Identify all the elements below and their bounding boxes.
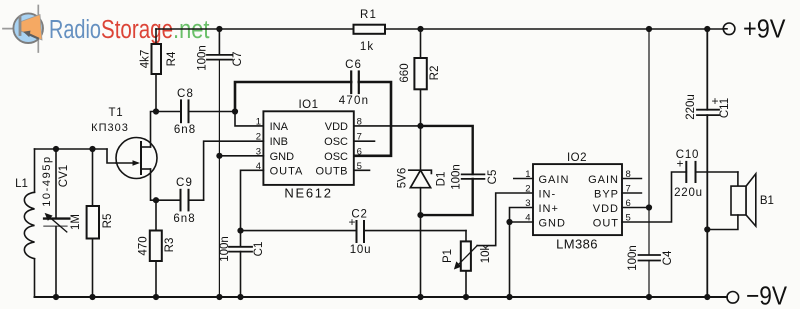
wire: IO1 pin8 VDD to supply node xyxy=(354,125,421,127)
svg-text:R3: R3 xyxy=(164,238,176,253)
wire: IO1 pin4 OUTA down xyxy=(241,170,264,230)
svg-text:C5: C5 xyxy=(487,170,499,185)
node: D1 column bottom xyxy=(417,294,423,300)
capacitor C8 6n8 xyxy=(156,88,235,136)
wire: jog from junction to T1 drain xyxy=(151,112,157,148)
variable capacitor CV1 10-495p xyxy=(41,149,70,297)
resistor R5 1M xyxy=(70,149,114,297)
resistor R1 xyxy=(354,25,386,34)
wire: IO2 pin6 VDD xyxy=(622,207,649,209)
svg-text:6: 6 xyxy=(357,146,362,157)
svg-text:IN+: IN+ xyxy=(539,203,559,215)
svg-text:C11: C11 xyxy=(719,98,731,118)
wire: IO1 pin3 GND xyxy=(219,155,263,157)
svg-text:.net: .net xyxy=(173,16,210,44)
capacitor C9 6n8 xyxy=(156,177,204,225)
svg-text:+9V: +9V xyxy=(743,14,786,44)
svg-text:OUT: OUT xyxy=(593,218,619,230)
svg-text:IO2: IO2 xyxy=(567,152,587,164)
wire: gnd column down xyxy=(509,222,511,297)
wire: IO1 pin2 INB from C9 xyxy=(204,141,264,200)
node: VDD column top xyxy=(646,26,652,32)
svg-text:5V6: 5V6 xyxy=(397,168,409,188)
node: C11 top rail xyxy=(704,26,710,32)
svg-text:470: 470 xyxy=(138,236,150,255)
capacitor C1 100n xyxy=(219,231,265,297)
capacitor C4 100n xyxy=(627,245,674,297)
-9V terminal xyxy=(727,292,739,304)
wire: IO2 pin8 stub xyxy=(622,178,641,180)
svg-text:R2: R2 xyxy=(429,66,441,81)
svg-text:1M: 1M xyxy=(70,214,82,230)
svg-text:NE612: NE612 xyxy=(284,186,332,201)
node: gnd column bottom xyxy=(216,294,222,300)
inductor L1 xyxy=(15,149,34,297)
resistor R2 660 xyxy=(399,29,441,126)
node: VDD column pin6 xyxy=(646,204,652,210)
svg-text:C7: C7 xyxy=(232,52,244,67)
svg-text:220u: 220u xyxy=(674,187,703,199)
svg-text:6n8: 6n8 xyxy=(174,124,196,136)
svg-text:R1: R1 xyxy=(360,9,377,21)
svg-text:100n: 100n xyxy=(627,245,639,271)
node: CV1 bottom xyxy=(53,294,59,300)
svg-text:C2: C2 xyxy=(351,209,367,221)
node: GND pin3 junction xyxy=(216,153,222,159)
node: R4/C8/T1 drain junction xyxy=(153,108,159,114)
node: CV1 top xyxy=(53,146,59,152)
svg-text:VDD: VDD xyxy=(593,203,619,215)
IC IO1 NE612 xyxy=(256,99,362,201)
resistor R3 470 xyxy=(138,200,177,297)
svg-text:D1: D1 xyxy=(436,172,448,187)
svg-text:INB: INB xyxy=(270,136,288,148)
VDD supply column xyxy=(648,29,650,255)
wire xyxy=(385,28,723,30)
svg-text:КП303: КП303 xyxy=(91,122,129,134)
svg-text:IN-: IN- xyxy=(539,189,557,201)
capacitor C10 220u electrolytic xyxy=(674,149,738,199)
capacitor C11 220u electrolytic xyxy=(685,29,731,297)
wire: gate to tank xyxy=(107,149,116,163)
node: R2 top rail xyxy=(417,26,423,32)
IC IO2 LM386 xyxy=(525,152,631,252)
svg-text:L1: L1 xyxy=(15,178,28,190)
svg-text:OUTB: OUTB xyxy=(315,166,348,178)
svg-text:R5: R5 xyxy=(102,214,114,229)
svg-text:GND: GND xyxy=(270,151,295,163)
svg-text:Radio: Radio xyxy=(49,16,101,44)
wire: D1 column to ground xyxy=(420,215,422,297)
node: speaker return junction xyxy=(704,226,710,232)
node: P1 bottom xyxy=(463,294,469,300)
capacitor C5 100n loop xyxy=(421,126,485,215)
svg-text:IO1: IO1 xyxy=(298,99,318,111)
svg-text:R4: R4 xyxy=(166,51,178,66)
svg-text:LM386: LM386 xyxy=(556,237,598,252)
svg-text:100n: 100n xyxy=(197,45,209,71)
svg-text:Storage: Storage xyxy=(101,16,173,44)
svg-text:10k: 10k xyxy=(480,244,492,263)
svg-text:C1: C1 xyxy=(253,242,265,257)
svg-text:VDD: VDD xyxy=(325,121,348,133)
RadioStorage.net logo xyxy=(3,6,210,53)
svg-text:C10: C10 xyxy=(676,149,700,161)
wire: IO2 pin3 IN+ to gnd xyxy=(510,208,534,223)
svg-text:GAIN: GAIN xyxy=(539,174,570,186)
svg-text:C8: C8 xyxy=(177,88,194,100)
node: C7 top rail xyxy=(216,26,222,32)
svg-text:−9V: −9V xyxy=(746,281,788,309)
node: R5 bottom xyxy=(89,294,95,300)
node: C4 bottom xyxy=(646,294,652,300)
svg-text:10u: 10u xyxy=(350,244,372,256)
svg-text:INA: INA xyxy=(270,121,289,133)
node: C11 bottom xyxy=(704,294,710,300)
transistor T1 KP303 JFET xyxy=(116,138,157,179)
svg-text:GAIN: GAIN xyxy=(588,174,619,186)
svg-text:+: + xyxy=(712,94,719,108)
svg-text:OSC: OSC xyxy=(324,151,348,163)
svg-text:1: 1 xyxy=(256,116,261,127)
wire: IO2 pin4 GND xyxy=(510,221,534,223)
svg-text:B1: B1 xyxy=(760,195,774,207)
node: IO2 gnd bottom xyxy=(506,294,512,300)
node: R3 bottom xyxy=(153,294,159,300)
wire: IO2 pin5 OUT to C10 xyxy=(622,172,686,222)
svg-text:470n: 470n xyxy=(339,95,369,107)
svg-text:6n8: 6n8 xyxy=(173,213,195,225)
svg-text:GND: GND xyxy=(539,218,566,230)
node: C8 / C6 / pin1 junction xyxy=(232,108,238,114)
capacitor C6 470n loop (bold) xyxy=(235,72,391,156)
svg-text:P1: P1 xyxy=(442,249,454,263)
svg-text:C9: C9 xyxy=(176,177,193,189)
svg-text:OSC: OSC xyxy=(324,136,348,148)
svg-text:OUTA: OUTA xyxy=(270,166,304,178)
wire: IO2 pin1 stub xyxy=(514,178,533,180)
+9V top rail wire xyxy=(156,28,354,30)
svg-text:220u: 220u xyxy=(685,94,697,120)
capacitor C7 100n / gnd column xyxy=(197,29,245,297)
svg-text:CV1: CV1 xyxy=(58,165,70,187)
svg-text:100n: 100n xyxy=(219,236,231,262)
svg-text:C6: C6 xyxy=(345,59,362,71)
zener diode D1 5V6 xyxy=(397,126,448,215)
wire: IO1 pin7 stub xyxy=(354,140,375,142)
potentiometer P1 10k xyxy=(442,193,533,297)
svg-text:100n: 100n xyxy=(451,164,463,190)
ground bottom rail xyxy=(35,296,728,298)
svg-text:BYP: BYP xyxy=(594,189,619,201)
svg-text:C4: C4 xyxy=(662,250,674,265)
resistor R4 xyxy=(155,29,157,44)
wire: junction to IO1 pin1 xyxy=(235,112,263,126)
svg-text:2: 2 xyxy=(525,184,530,195)
svg-text:10-495p: 10-495p xyxy=(41,155,53,207)
svg-text:T1: T1 xyxy=(108,107,123,119)
node: source/C9/R3 junction xyxy=(153,197,159,203)
node: VDD junction xyxy=(417,123,423,129)
wire: IO1 pin5 stub xyxy=(354,169,370,171)
speaker B1 xyxy=(707,172,774,230)
node: IN+/GND junction xyxy=(506,219,512,225)
node: R5 top xyxy=(89,146,95,152)
wire: IO2 pin7 stub xyxy=(622,192,641,194)
capacitor C2 10u electrolytic xyxy=(241,209,467,257)
node: OUTA/C1/C2 junction xyxy=(237,228,243,234)
svg-text:660: 660 xyxy=(399,63,411,82)
wire: T1 source down xyxy=(151,169,157,200)
+9V terminal xyxy=(723,23,735,35)
node: D1/C5 bottom junction xyxy=(417,212,423,218)
svg-text:4k7: 4k7 xyxy=(140,50,152,69)
svg-text:1k: 1k xyxy=(360,41,374,53)
node: C1 bottom xyxy=(237,294,243,300)
